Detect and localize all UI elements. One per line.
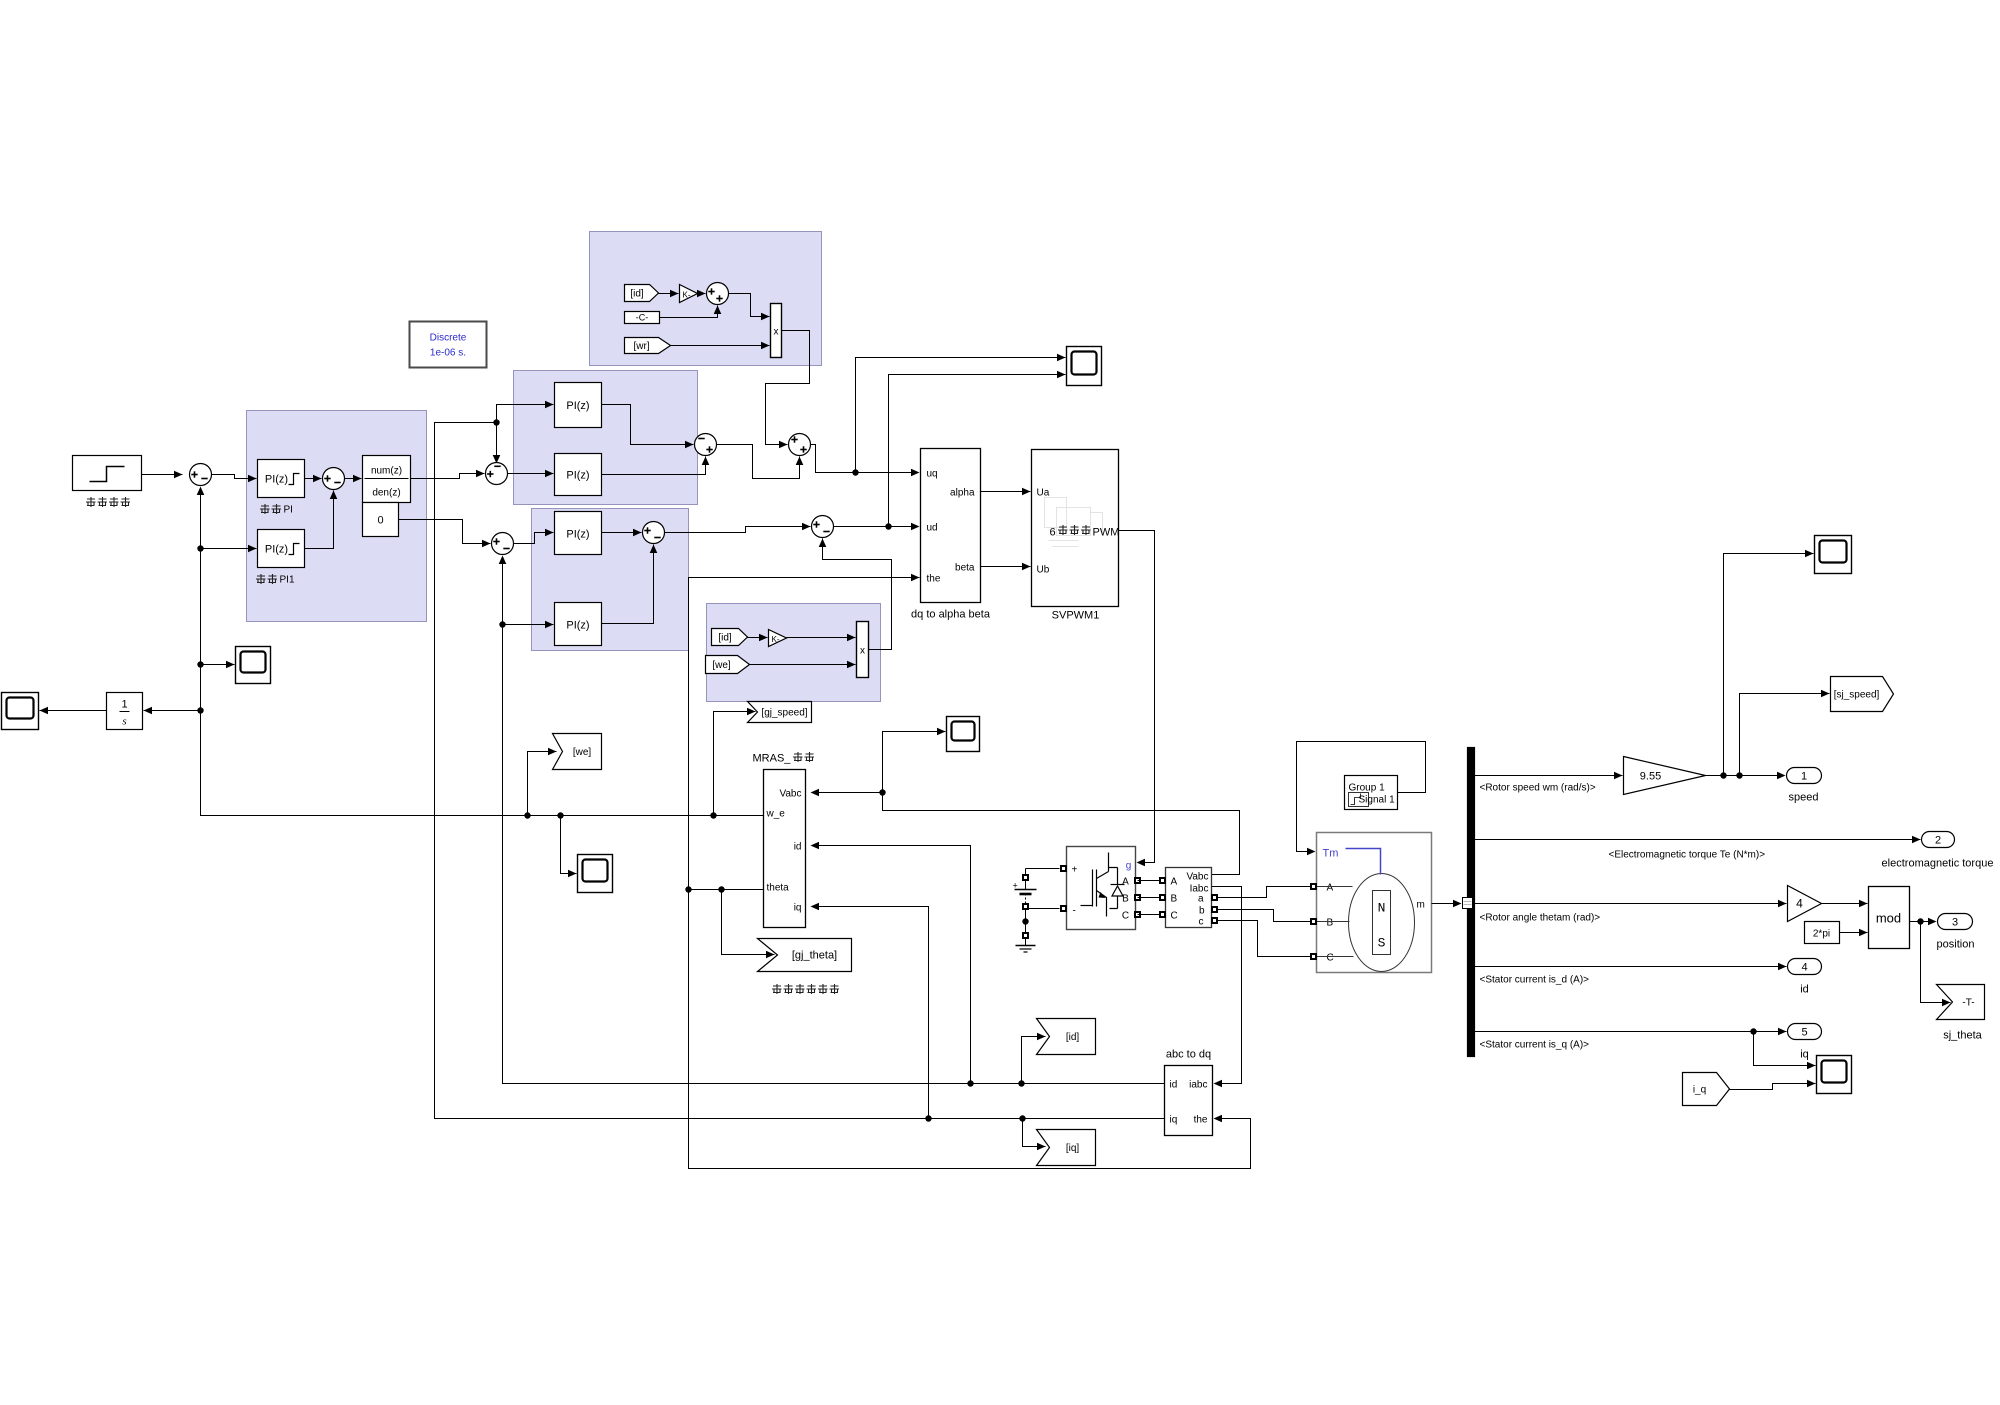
svg-text:Ua: Ua (1037, 488, 1050, 499)
wire S1 to 转速PI (212, 475, 257, 483)
wire DC- to inverter - (1029, 908, 1060, 910)
wire id feedback to PI d lower (503, 621, 554, 629)
block signal builder Group 1 / Signal 1 (1345, 776, 1398, 810)
wire bus rotor speed to gain 9.55 (1475, 772, 1623, 780)
svg-text:sj_theta: sj_theta (1943, 1030, 1982, 1042)
port motor B (1310, 918, 1317, 925)
wire id feedback from abc-to-dq (503, 562, 1165, 1084)
svg-text:[sj_speed]: [sj_speed] (1834, 690, 1880, 701)
svg-text:A: A (1327, 883, 1334, 894)
block integrator 1/s (flipped) (107, 693, 143, 730)
svg-text:iq: iq (1800, 1049, 1809, 1061)
junction iq to goto [iq] (1019, 1115, 1025, 1121)
wire PI d upper to sum S8 (602, 529, 642, 537)
wire S6 to sum S7 bottom (717, 445, 804, 479)
junction Vabc to scope (879, 789, 885, 795)
junction theta to goto [gj_theta] (718, 886, 724, 892)
scope Sc7 (w_e) (578, 855, 613, 893)
port inverter B (1134, 894, 1141, 901)
wire integrator to scope Sc2 (40, 707, 107, 715)
port inverter - (1060, 905, 1067, 912)
junction id feedback to PI d lower (499, 621, 505, 627)
svg-text:+: + (1013, 881, 1018, 891)
wire inverter B to measurement B (1138, 897, 1161, 899)
svg-text:1: 1 (121, 699, 127, 711)
sum S9 (ud) (812, 516, 834, 538)
svg-text:<Electromagnetic torque Te (N*: <Electromagnetic torque Te (N*m)> (1609, 850, 1766, 861)
svg-text:iq: iq (1170, 1115, 1178, 1126)
junction speed to scope (1720, 772, 1726, 778)
svg-text:Discrete: Discrete (430, 333, 467, 344)
svg-text:1: 1 (1801, 771, 1807, 783)
wire alpha to SVPWM Ua (981, 488, 1031, 496)
wire S8 to sum S9 (665, 523, 811, 533)
scope Sc2 (angle) (2, 693, 39, 730)
svg-text:uq: uq (927, 469, 938, 480)
svg-text:x: x (860, 646, 865, 657)
label 转速PI (260, 504, 293, 516)
junction speed feedback to 转速PI1 (197, 545, 203, 551)
wire 转速PI1 to sum S2 bottom (305, 491, 338, 549)
inverter IGBT/diode icon (1081, 853, 1125, 917)
wire S3 to PI lower (508, 470, 554, 478)
junction theta (685, 886, 691, 892)
svg-text:iq: iq (794, 903, 802, 914)
outport 4 id (1788, 959, 1822, 975)
svg-text:PI: PI (284, 505, 293, 516)
svg-text:[we]: [we] (712, 660, 731, 671)
svg-text:6: 6 (1049, 527, 1055, 539)
svg-text:g: g (1126, 861, 1132, 872)
wire i_q to scope Sc6 input2 (1730, 1080, 1816, 1090)
block universal bridge inverter (IGBT) (1067, 847, 1136, 930)
svg-text:mod: mod (1876, 911, 1901, 926)
area box speed PI (247, 411, 427, 622)
port measurement B (1159, 894, 1166, 901)
svg-text:K-: K- (772, 635, 780, 644)
sum S8 (643, 522, 665, 544)
svg-text:the: the (1194, 1115, 1208, 1126)
port motor C (1310, 953, 1317, 960)
svg-text:Ub: Ub (1037, 565, 1050, 576)
wire speed to scope Sc4 (1724, 550, 1814, 776)
gain 4 (1788, 886, 1822, 922)
port measurement c (1211, 917, 1218, 924)
port DC- (1022, 903, 1029, 910)
block math function mod (1869, 887, 1910, 949)
from tag [we] (box4) (706, 656, 750, 674)
junction speed feedback to scope (197, 661, 203, 667)
wire w_e to scope Sc7 (561, 816, 577, 878)
wire theta to dq-block the input (689, 574, 920, 890)
svg-text:Vabc: Vabc (779, 789, 801, 800)
Tm blue wire inside motor (1346, 849, 1381, 875)
wire speed feedback w_e from MRAS to sum S1 (201, 494, 764, 816)
wire w_e to goto [gj_speed] (714, 708, 756, 816)
svg-text:[id]: [id] (1066, 1032, 1080, 1043)
scope Sc4 (speed) (1815, 536, 1852, 574)
svg-text:id: id (1800, 984, 1809, 996)
svg-text:beta: beta (955, 563, 975, 574)
wire mux M2 to sum S9 bottom (819, 539, 892, 650)
from tag [id] (box1) (625, 285, 659, 302)
outport 1 speed (1787, 768, 1822, 784)
junction speed to goto [sj_speed] (1736, 772, 1742, 778)
sum S7 (uq) (789, 434, 811, 456)
svg-text:PI(z): PI(z) (566, 620, 589, 632)
scope Sc5 (uq ud) (1067, 347, 1102, 386)
outport 3 position (1938, 914, 1973, 930)
svg-text:<Rotor speed wm (rad/s)>: <Rotor speed wm (rad/s)> (1480, 783, 1596, 794)
wire gain 9.55 to outport 1 speed (1706, 775, 1785, 777)
svg-text:-T-: -T- (1962, 998, 1974, 1009)
svg-text:2*pi: 2*pi (1813, 929, 1830, 940)
junction speed feedback to integrator (197, 707, 203, 713)
wire iq feedback to sum S3 top (493, 423, 501, 464)
port measurement b (1211, 906, 1218, 913)
wire measurement b to motor B (1218, 910, 1311, 922)
svg-text:x: x (774, 327, 779, 338)
wire iq to goto [iq] (1023, 1119, 1046, 1151)
block constant 0 (363, 503, 399, 537)
wire measurement a to motor A (1218, 887, 1311, 898)
port measurement A (1159, 877, 1166, 884)
wire inverter C to measurement C (1138, 914, 1161, 916)
area box 3 (d-axis current PI) (532, 509, 689, 651)
junction DC neutral (1022, 918, 1028, 924)
label 给定转速 (86, 497, 130, 507)
wire iq feedback to PI upper (497, 401, 554, 423)
junction uq to scope (852, 469, 858, 475)
svg-text:[gj_speed]: [gj_speed] (761, 708, 807, 719)
wire -C- to sum S5 bottom (660, 306, 722, 318)
svg-text:C: C (1122, 911, 1129, 922)
svg-text:B: B (1171, 894, 1178, 905)
sum S5 (box1) (707, 283, 729, 305)
wire beta to SVPWM Ub (981, 563, 1031, 571)
svg-text:-: - (1073, 906, 1076, 917)
wire id feedback to MRAS id input (812, 846, 971, 1084)
label MRAS_电流 (753, 752, 815, 765)
area box 2 (q-axis current PI) (514, 371, 698, 505)
wire bus stator current is_d to outport 4 (1475, 963, 1787, 971)
goto tag [id] (1037, 1019, 1096, 1055)
goto tag [iq] (1037, 1130, 1096, 1166)
svg-text:a: a (1198, 894, 1204, 905)
wire num/den to sum S3 (iq ref) (411, 470, 485, 479)
junction iq to MRAS (925, 1115, 931, 1121)
svg-text:[id]: [id] (630, 289, 644, 300)
svg-text:num(z): num(z) (371, 466, 402, 477)
svg-text:MRAS_: MRAS_ (753, 753, 792, 765)
gain K- (box1) (680, 285, 698, 303)
block PMSM machine (1317, 833, 1432, 973)
svg-text:4: 4 (1796, 897, 1803, 911)
svg-text:S: S (1378, 936, 1386, 951)
block SVPWM1 (1032, 450, 1119, 607)
svg-text:den(z): den(z) (372, 488, 400, 499)
goto tag [sj_speed] (1831, 677, 1894, 712)
svg-text:abc to dq: abc to dq (1166, 1049, 1211, 1061)
scope Sc3 (speed error) (236, 647, 271, 684)
svg-text:theta: theta (767, 883, 790, 894)
mux M1 (product) x (771, 304, 782, 358)
wire S2 to num/den (345, 475, 362, 483)
area box 1 (decoupling q feed-forward) (590, 232, 822, 366)
svg-text:<Rotor angle thetam (rad)>: <Rotor angle thetam (rad)> (1480, 913, 1601, 924)
svg-text:<Stator current is_d (A)>: <Stator current is_d (A)> (1480, 975, 1590, 986)
svg-text:ud: ud (927, 523, 938, 534)
label 转速PI1 (256, 574, 295, 586)
svg-text:Signal 1: Signal 1 (1359, 795, 1396, 806)
junction w_e to goto [we] (524, 812, 530, 818)
block constant 2*pi (1805, 922, 1840, 944)
svg-text:the: the (927, 574, 941, 585)
block PI(z) q-axis lower (555, 454, 602, 496)
sum S3 (iq error) (486, 463, 508, 485)
scope Sc6 (iq) (1817, 1056, 1852, 1094)
svg-text:Group 1: Group 1 (1349, 783, 1386, 794)
svg-text:alpha: alpha (950, 488, 975, 499)
svg-text:2: 2 (1935, 835, 1941, 847)
ground symbol (1016, 946, 1036, 953)
wire [wr] to mux M1 input2 (671, 342, 770, 350)
wire Vabc from measurement to MRAS (812, 793, 1240, 875)
wire S7 to dq-block uq input (811, 445, 919, 473)
block dq to alpha beta (921, 449, 981, 603)
svg-text:PI(z): PI(z) (566, 529, 589, 541)
label 估计电机角度 (772, 984, 839, 994)
label 6路控制PWM inside SVPWM1 (1049, 525, 1119, 539)
port bus input square (1463, 898, 1473, 909)
port measurement a (1211, 894, 1218, 901)
svg-text:dq to alpha beta: dq to alpha beta (911, 609, 991, 621)
svg-text:1e-06 s.: 1e-06 s. (430, 348, 466, 359)
block PI(z) d-axis upper (555, 512, 602, 555)
goto tag -T- (1937, 985, 1985, 1020)
svg-text:B: B (1327, 918, 1334, 929)
svg-text:electromagnetic torque: electromagnetic torque (1882, 858, 1994, 870)
wire DC+ to inverter + (1026, 868, 1060, 870)
port inverter C (1134, 911, 1141, 918)
block 转速PI1 PI(z) (258, 530, 305, 568)
svg-text:PI(z): PI(z) (265, 544, 288, 556)
wire gain 4 to mod input1 (1822, 900, 1868, 908)
svg-text:PWM: PWM (1093, 527, 1120, 539)
wire theta to abc-to-dq the input (689, 890, 1251, 1169)
svg-text:[iq]: [iq] (1066, 1143, 1080, 1154)
svg-text:4: 4 (1801, 962, 1807, 974)
wire id to goto [id] (1022, 1033, 1046, 1084)
svg-text:PI(z): PI(z) (566, 400, 589, 412)
junction id to goto [id] (1018, 1080, 1024, 1086)
wire 2*pi to mod input2 (1840, 929, 1868, 937)
svg-text:SVPWM1: SVPWM1 (1052, 610, 1100, 622)
port inverter + (1060, 865, 1067, 872)
wire speed to goto [sj_speed] (1740, 690, 1830, 776)
wire bus rotor angle to gain 4 (1475, 900, 1787, 908)
wire ud to scope Sc5 input2 (889, 371, 1066, 527)
junction iq to scope Sc6 (1750, 1028, 1756, 1034)
wire mux M1 to sum S7 left (766, 331, 810, 449)
wire motor m to bus selector (1432, 903, 1461, 905)
block MRAS observer (flipped) (764, 770, 806, 928)
wire mod to outport 3 position (1910, 921, 1936, 923)
goto tag [gj_speed] (748, 702, 812, 723)
svg-text:A: A (1171, 877, 1178, 888)
wire bus torque to outport 2 (1475, 836, 1921, 844)
wire [id] to gain K- (659, 290, 679, 298)
svg-text:[wr]: [wr] (633, 341, 649, 352)
junction w_e to scope (557, 812, 563, 818)
wire uq to scope Sc5 input1 (856, 354, 1066, 473)
port motor A (1310, 883, 1317, 890)
block three-phase V-I measurement (1166, 868, 1212, 928)
sum S1 (speed error) (190, 464, 212, 486)
gain K- (box4) (769, 630, 787, 647)
scope Sc8 (Vabc) (947, 717, 980, 752)
svg-text:+: + (1072, 865, 1078, 876)
svg-text:C: C (1327, 953, 1334, 964)
wire gain to mux M2 input1 (787, 634, 856, 642)
step source block 给定转速 (73, 456, 142, 491)
svg-text:m: m (1417, 900, 1425, 911)
svg-text:position: position (1937, 939, 1975, 951)
svg-text:A: A (1122, 877, 1129, 888)
svg-text:PI(z): PI(z) (566, 470, 589, 482)
sum S2 (323, 468, 345, 490)
svg-text:b: b (1199, 906, 1205, 917)
svg-text:i_q: i_q (1693, 1085, 1706, 1096)
svg-text:[id]: [id] (718, 633, 732, 644)
DC voltage source (1013, 869, 1037, 946)
wire measurement c to motor C (1218, 921, 1311, 957)
svg-text:-C-: -C- (636, 313, 649, 323)
wire PI lower to sum S6 bottom (602, 457, 710, 475)
wire Iabc to abc-to-dq iabc (1212, 887, 1242, 1084)
block abc to dq (flipped) (1165, 1066, 1213, 1136)
from tag i_q (1683, 1073, 1730, 1106)
outport 2 electromagnetic torque (1922, 832, 1955, 848)
goto tag [we] (553, 734, 602, 770)
wire S4 to PI d upper (514, 529, 554, 544)
sum S4 (id error) (492, 533, 514, 555)
block 转速PI PI(z) (258, 460, 305, 498)
svg-text:3: 3 (1952, 917, 1958, 929)
svg-text:0: 0 (377, 515, 383, 527)
svg-text:Vabc: Vabc (1186, 872, 1208, 883)
svg-text:PI1: PI1 (280, 575, 295, 586)
wire iq feedback from abc-to-dq (435, 423, 1165, 1119)
block constant -C- (625, 312, 660, 324)
svg-text:N: N (1378, 901, 1386, 916)
block PI(z) q-axis upper (555, 383, 602, 428)
wire feedback to scope Sc3 (201, 661, 235, 669)
junction w_e to goto [gj_speed] (710, 812, 716, 818)
svg-text:[gj_theta]: [gj_theta] (792, 950, 837, 962)
wire bus stator current is_q to outport 5 (1475, 1028, 1787, 1036)
svg-text:PI(z): PI(z) (265, 474, 288, 486)
area box 4 (decoupling d feed-forward) (707, 604, 881, 702)
svg-text:K-: K- (683, 291, 691, 300)
wire iq feedback to MRAS iq input (812, 907, 929, 1119)
mux M2 (product) x (857, 622, 869, 678)
port DC+ (1022, 874, 1029, 881)
wire theta to goto [gj_theta] (722, 890, 775, 959)
wire feedback to integrator 1/s (flipped) (144, 707, 201, 715)
port inverter A (1134, 877, 1141, 884)
outport 5 iq (1788, 1024, 1822, 1040)
svg-text:id: id (794, 842, 802, 853)
svg-text:s: s (122, 716, 126, 728)
wire PI upper to sum S6 (602, 405, 694, 449)
gain 9.55 (1624, 757, 1706, 795)
port DC ground (1022, 932, 1029, 939)
wire PI d lower to sum S8 bottom (602, 545, 658, 624)
svg-text:id: id (1170, 1080, 1178, 1091)
wire S5 to mux M1 input1 (729, 294, 770, 321)
bus selector bar (1468, 748, 1475, 1057)
block discrete transfer fcn num(z)/den(z) (363, 456, 411, 503)
wire SVPWM gate signal g to inverter (1119, 531, 1155, 863)
junction ud to scope (885, 523, 891, 529)
wire Vabc to scope Sc8 (883, 728, 946, 793)
svg-text:<Stator current is_q (A)>: <Stator current is_q (A)> (1480, 1040, 1590, 1051)
svg-text:w_e: w_e (766, 809, 786, 820)
from tag [wr] (625, 338, 671, 354)
svg-text:9.55: 9.55 (1640, 771, 1661, 783)
wire [we] to mux M2 input2 (750, 661, 856, 669)
wire inverter A to measurement A (1138, 880, 1161, 882)
junction iq feedback (493, 419, 499, 425)
sum S6 (695, 434, 717, 456)
wire position to goto -T- (1921, 922, 1951, 1007)
port measurement C (1159, 911, 1166, 918)
goto tag [gj_theta] (758, 939, 852, 972)
junction position to goto -T- (1917, 918, 1923, 924)
wire gain to sum S5 (697, 290, 706, 298)
wire constant 0 to sum S4 (id ref) (399, 520, 491, 548)
svg-text:Tm: Tm (1323, 848, 1339, 860)
wire w_e to goto [we] (528, 748, 557, 816)
svg-text:speed: speed (1789, 792, 1819, 804)
junction id to MRAS (967, 1080, 973, 1086)
svg-text:C: C (1171, 911, 1178, 922)
svg-text:[we]: [we] (573, 747, 592, 758)
from tag [id] (box4) (712, 629, 748, 646)
svg-text:c: c (1199, 917, 1204, 928)
block PI(z) d-axis lower (555, 603, 602, 646)
wire step to sum S1 (142, 471, 183, 479)
wire S9 to dq-block ud input (834, 526, 919, 528)
wire iq to scope Sc6 input1 (1754, 1032, 1816, 1070)
wire feedback to 转速PI1 input (201, 545, 257, 553)
wire [id] to gain K- (box4) (748, 634, 768, 642)
svg-text:5: 5 (1801, 1027, 1807, 1039)
wire 转速PI to sum S2 (305, 475, 322, 483)
powergui block Discrete 1e-06 s. (410, 322, 487, 368)
wire theta from MRAS (689, 889, 764, 891)
wire signal builder to motor Tm (1297, 742, 1426, 852)
svg-text:iabc: iabc (1189, 1080, 1207, 1091)
